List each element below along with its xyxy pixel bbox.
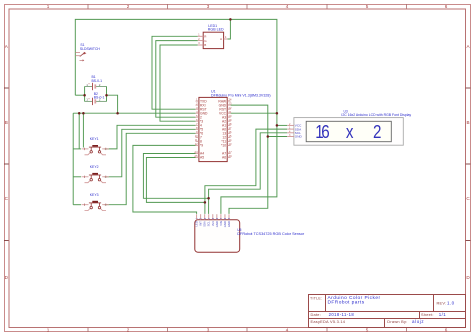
svg-text:KEY2: KEY2 [90,165,99,169]
svg-text:alojz: alojz [412,319,424,324]
svg-text:6: 6 [445,4,448,9]
svg-text:5: 5 [366,327,369,332]
switch S1 SLDSWITCH [75,43,100,61]
svg-text:B: B [204,43,206,47]
wire bus to KEY1 pin1 [78,113,80,149]
svg-text:*9: *9 [200,144,203,148]
wire U1 A4 to SCL node [143,154,208,199]
svg-text:B: B [466,120,469,125]
svg-text:REV:: REV: [437,301,447,306]
svg-text:A5: A5 [200,156,204,160]
svg-text:A6: A6 [222,156,226,160]
wire SCL node to sensor SCL [208,198,210,214]
wire U1 VCC to vertical bus [231,112,277,114]
svg-text:DFRobot TCS34725 RGB Color Sen: DFRobot TCS34725 RGB Color Sensor [237,232,305,236]
svg-text:Sheet:: Sheet: [421,312,434,317]
wire SCL node to LCD SCL [209,133,288,199]
sensor U5 TCS34725 [195,214,305,252]
svg-text:SDA: SDA [203,221,207,227]
svg-text:BS-0-1: BS-0-1 [94,95,105,99]
svg-text:B: B [5,120,8,125]
svg-text:GND: GND [223,221,227,227]
wire LED anode to bus [227,19,230,39]
svg-text:1: 1 [47,4,50,9]
svg-text:SLDSWITCH: SLDSWITCH [80,47,101,51]
battery B1 [85,75,106,90]
svg-text:BS-0-1: BS-0-1 [92,79,103,83]
wire keys bus stub KEY2 [73,176,81,178]
IC U1 DFRduino Pro Mini [194,90,270,162]
wire battery right side [106,86,108,101]
svg-text:A: A [220,37,222,41]
wire VCC branch to LCD VCC pin [277,124,287,126]
wire U1 pin9 to sensor LED [133,145,197,214]
wire keys left bus [72,113,74,205]
svg-text:SCL: SCL [207,221,211,227]
node bus battery feed [116,112,119,115]
svg-text:I2C 16x2 Arduino LCD with RGB: I2C 16x2 Arduino LCD with RGB Font Displ… [341,113,411,117]
display U3 LCD1602 [287,109,411,145]
svg-text:4: 4 [286,4,289,9]
svg-text:RGB LED: RGB LED [208,28,224,32]
svg-text:3: 3 [207,4,210,9]
svg-text:6: 6 [445,327,448,332]
wire GND branch to LCD GND pin [268,136,287,138]
node SDA [204,201,207,204]
svg-text:GND: GND [295,135,303,139]
battery B2 [85,92,106,105]
wire LED R to U1 RST [152,36,198,109]
svg-text:A5: A5 [194,154,198,158]
node LED anode junction [229,18,232,21]
key KEY2 [82,165,110,183]
node GND LCD row [267,135,270,138]
key KEY3 [82,193,110,211]
wire SDA node to LCD SDA [205,129,287,202]
svg-text:A6: A6 [229,154,233,158]
wire SDA node to sensor SDA [204,202,206,214]
wire VCC top bus [75,19,277,214]
svg-text:A4: A4 [194,150,198,154]
wire switch to battery [75,94,84,96]
wire KEY1 to U1 pin4 [105,125,196,149]
svg-text:3: 3 [207,327,210,332]
svg-text:GND: GND [215,221,219,227]
title block [309,295,466,328]
svg-text:4: 4 [286,327,289,332]
svg-text:TITLE:: TITLE: [310,296,322,300]
key KEY1 [82,137,110,155]
svg-text:Date:: Date: [311,312,322,317]
svg-text:6: 6 [321,122,329,143]
svg-text:3V3: 3V3 [211,221,215,226]
svg-text:A7: A7 [229,150,233,154]
node bus KEY1a [78,112,81,115]
wire GND bus horizontal [73,112,195,114]
node SCL [207,197,210,200]
wire LED B to U1 pin3 [160,45,198,121]
svg-text:1: 1 [47,327,50,332]
node battery left [83,94,86,97]
wire KEY2 to U1 pin5 [105,129,196,177]
svg-text:DFRduino Pro Mini V1.3(8M3.3V3: DFRduino Pro Mini V1.3(8M3.3V328) [211,93,271,97]
wire bus to KEY1 contact [82,113,84,147]
node battery right [105,94,108,97]
svg-text:EasyEDA V5.3.14: EasyEDA V5.3.14 [311,319,346,324]
wire KEY3 to U1 pin6 [105,133,196,204]
LED LED1 RGB LED [198,24,228,48]
wire keys bus stub KEY3 [73,204,81,206]
svg-text:Drawn By:: Drawn By: [387,319,407,324]
svg-text:2: 2 [373,122,381,143]
wire U1 GND to LCD GND and sensor GND [229,105,268,214]
wire battery left side [84,86,86,101]
wire U1 A5 to SDA node [146,158,205,203]
svg-text:2: 2 [127,327,130,332]
wire LED G to U1 pin2 [156,41,198,118]
svg-text:2: 2 [127,4,130,9]
svg-text:1/1: 1/1 [439,312,447,317]
node VCC U1 row [276,112,279,115]
svg-text:KEY1: KEY1 [90,137,99,141]
svg-text:KEY3: KEY3 [90,193,99,197]
svg-text:2018-11-18: 2018-11-18 [329,312,355,317]
svg-text:1.0: 1.0 [447,301,455,306]
wire keys bus stub KEY1 [73,148,81,150]
svg-text:DFRobot parts: DFRobot parts [328,300,365,306]
svg-text:LED: LED [195,221,199,226]
node bus KEY1b [82,112,85,115]
svg-text:x: x [346,122,354,143]
svg-text:*10: *10 [221,144,226,148]
svg-text:INT: INT [199,221,203,226]
wire battery to bus [107,95,118,113]
node VCC LCD row [276,124,279,127]
svg-text:GND: GND [227,221,231,227]
svg-text:5: 5 [366,4,369,9]
svg-text:VIN: VIN [219,221,223,226]
